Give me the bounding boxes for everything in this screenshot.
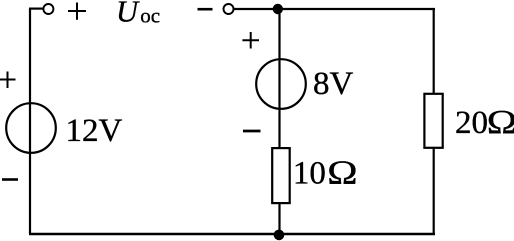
svg-text:12V: 12V: [66, 113, 123, 149]
label - (Uoc polarity): [198, 8, 213, 11]
resistor R2 20 ohm: [424, 94, 442, 148]
svg-text:20: 20: [455, 105, 488, 141]
node: junction dot at bottom of middle branch: [274, 230, 285, 241]
label + (8V polarity): [242, 32, 259, 49]
wire: right branch vertical: [433, 8, 435, 234]
svg-text:10: 10: [293, 155, 326, 191]
node: junction dot at top of middle branch: [273, 4, 283, 14]
label + (12V polarity): [0, 72, 16, 89]
terminal a (open circle, Uoc left): [43, 4, 53, 14]
voltage source V2 8V: [256, 59, 306, 109]
wire: middle branch vertical: [278, 9, 280, 234]
svg-text:oc: oc: [140, 3, 160, 27]
wire: top segment from terminal b to top-right corner: [234, 8, 436, 10]
wire: left branch vertical: [29, 9, 31, 235]
terminal b (open circle, Uoc right): [224, 4, 234, 14]
svg-text:Ω: Ω: [487, 104, 514, 141]
voltage source V1 12V: [6, 103, 56, 153]
resistor R1 10 ohm: [272, 148, 290, 203]
wire: bottom horizontal: [29, 233, 435, 235]
svg-text:Ω: Ω: [327, 154, 357, 191]
label - (12V polarity): [2, 178, 18, 181]
label - (8V polarity): [243, 130, 261, 133]
label + (Uoc polarity): [68, 3, 86, 20]
svg-text:U: U: [116, 0, 140, 29]
svg-text:8V: 8V: [313, 66, 354, 102]
wire: top-left segment: [29, 8, 44, 10]
